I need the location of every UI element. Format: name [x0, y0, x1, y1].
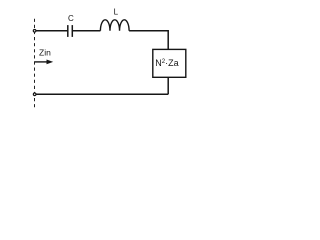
svg-text:L: L — [114, 8, 119, 17]
svg-text:C: C — [68, 14, 74, 23]
wire: load box bottom to bottom rail — [167, 77, 169, 94]
node Zin: dashed input reference line — [34, 16, 36, 107]
wire: top terminal to capacitor C — [36, 30, 68, 32]
inductor L (3 humps) — [100, 20, 129, 31]
svg-text:N2·Za: N2·Za — [155, 58, 178, 68]
capacitor C plates — [68, 25, 73, 37]
svg-text:Zin: Zin — [39, 47, 51, 57]
wire: capacitor C to inductor L — [72, 30, 100, 32]
port terminal top (open circle) — [33, 30, 36, 33]
port terminal bottom (open circle) — [33, 93, 36, 96]
impedance block N²·Za — [153, 49, 186, 77]
arrow: Zin looking-in direction — [34, 60, 53, 65]
wire: inductor L to load box top — [129, 31, 168, 50]
wire: bottom rail to bottom terminal — [36, 93, 168, 95]
